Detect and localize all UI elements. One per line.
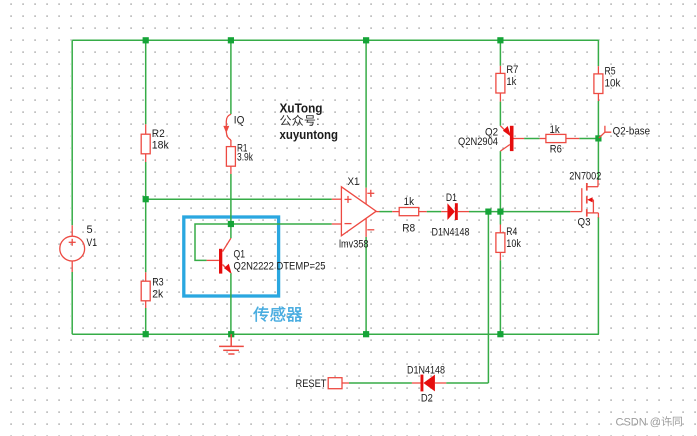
transistor Q1 (NPN Q2N2222) [207,238,232,274]
diode D1 (D1N4148) [441,203,469,220]
svg-text:R8: R8 [402,222,415,234]
wire R2 branch from top bus [145,40,147,124]
wire right rail R5 to Q2-base node [597,101,599,138]
node Q1 collector / feedback [228,221,234,227]
wire D2 to riser [446,382,488,384]
node bottom bus / R4 [497,331,503,337]
svg-text:Q2N2222 DTEMP=25: Q2N2222 DTEMP=25 [234,260,326,272]
annotation chuanganqi (sensor) [253,307,268,322]
svg-text:R6: R6 [550,144,562,156]
svg-text:D1N4148: D1N4148 [407,365,445,377]
svg-text:R5: R5 [605,66,616,78]
voltage source V1 [60,225,85,272]
node top bus / R7 branch [497,37,503,43]
port RESET [328,378,342,389]
svg-text:Q2N2904: Q2N2904 [458,136,498,148]
transistor Q3 (NMOS 2N7002) [570,180,598,218]
svg-text:xuyuntong: xuyuntong [280,127,339,142]
svg-text:Q2-base: Q2-base [613,125,651,137]
resistor R4 [496,225,505,261]
svg-text:1k: 1k [506,76,516,88]
svg-text:10k: 10k [506,238,521,250]
wire R7 to Q2 emitter [499,102,501,126]
node top bus / R1 branch [228,37,234,43]
wire right rail Q2-base node to Q3 drain [597,138,599,180]
svg-text:1k: 1k [404,196,415,208]
node bottom bus / R3 [143,331,149,337]
svg-text:RESET: RESET [296,378,327,390]
wire Q2 collector down to output node [499,151,501,212]
resistor R2 [141,124,150,162]
wire eraser underlay [72,40,599,383]
resistor R7 [496,66,505,102]
resistor R3 [141,272,150,308]
node bottom bus / V- branch [363,331,369,337]
svg-text:Q3: Q3 [578,217,591,229]
svg-text:D1N4148: D1N4148 [432,227,470,239]
svg-text:2k: 2k [152,288,163,300]
svg-text:3.9k: 3.9k [237,151,253,163]
node top bus / V+ branch [363,37,369,43]
svg-text:IQ: IQ [234,115,245,127]
wire R2 to R3 through node A [145,162,147,272]
current probe IQ [223,114,231,140]
svg-text:V1: V1 [87,237,98,249]
wire output node to R4 [499,212,501,225]
svg-text:R4: R4 [506,226,517,238]
annotation gongzhonghao [280,115,291,126]
net alias marker Q2-base [599,126,611,138]
svg-text:Q1: Q1 [234,248,246,260]
svg-text:18k: 18k [152,140,169,152]
wire R7 branch from top bus [499,40,501,66]
wire R6 to Q2-base node [579,138,598,140]
resistor R5 [594,66,603,101]
wire opamp V+ supply from top bus [365,40,367,188]
node Q2-base [595,135,601,141]
wire riser D2 node up to D1 output node [487,212,489,383]
wire opamp V- supply to bottom bus [365,237,367,334]
wire right rail Q3 source down [597,217,599,334]
transistor Q2 (PNP Q2N2904) [500,126,524,151]
svg-text:R2: R2 [152,128,165,140]
svg-text:X1: X1 [348,176,360,188]
wire top bus [72,39,599,41]
diode D2 (D1N4148) [412,375,446,392]
wire RESET port to D2 [349,382,412,384]
node R4 top / Q2 collector [497,209,503,215]
node A noninverting tap [143,196,149,202]
svg-text:5: 5 [87,224,93,236]
resistor R1 [226,140,235,174]
wire R8 to D1 [427,211,442,213]
node top bus / R2 branch [143,37,149,43]
node D1 cathode / D2 riser [485,209,491,215]
svg-text:CSDN @: CSDN @ [616,416,661,428]
wire left rail lower [71,272,73,334]
wire R4 to bottom bus [499,260,501,334]
svg-text:10k: 10k [605,78,621,90]
wire D1 to Q3 gate [469,211,570,213]
wire inverting input [231,223,332,225]
wire Q1 emitter to bottom bus [230,273,232,334]
wire noninverting input [146,198,332,200]
svg-text:1k: 1k [550,124,561,136]
wire R1 branch from top bus [230,40,232,114]
ground [219,334,244,354]
wire Q2 base to R6 [524,138,540,140]
resistor R8 (horizontal) [392,208,427,216]
svg-text:D1: D1 [446,192,457,204]
wire right rail top [597,40,599,66]
wire bottom bus [72,333,599,335]
sensor enclosure box (blue) [184,217,279,296]
wire opamp output to R8 [380,211,393,213]
svg-text:2N7002: 2N7002 [569,171,601,183]
wire feedback to Q1 base [195,224,231,260]
svg-text:lmv358: lmv358 [339,239,369,251]
resistor R6 (horizontal) [540,134,580,142]
node bottom bus / ground [228,331,234,337]
op-amp U1 (X1 lmv358) [332,187,380,237]
svg-text::: : [316,114,319,128]
wire left rail upper [71,40,73,225]
svg-text:R7: R7 [506,64,518,76]
svg-text:D2: D2 [421,392,433,404]
wire R3 to bottom bus [145,308,147,334]
wire R1 to Q1 collector node [230,174,232,238]
svg-text:R3: R3 [152,277,164,289]
